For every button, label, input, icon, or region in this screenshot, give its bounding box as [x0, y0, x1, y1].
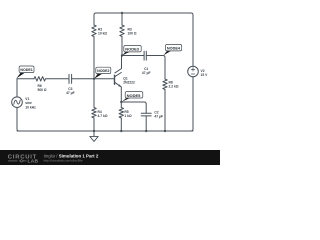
- svg-text:NODE3: NODE3: [125, 47, 140, 52]
- svg-text:10 kΩ: 10 kΩ: [98, 32, 107, 36]
- svg-text:10 kHz: 10 kHz: [25, 105, 36, 109]
- svg-text:http://circuitlab.com/c6vx38e: http://circuitlab.com/c6vx38e: [44, 158, 83, 162]
- svg-text:NODE4: NODE4: [167, 47, 181, 51]
- svg-text:15 V: 15 V: [201, 73, 209, 77]
- svg-text:47 μF: 47 μF: [66, 91, 75, 95]
- svg-text:1 kΩ: 1 kΩ: [124, 114, 132, 118]
- svg-text:NODE1: NODE1: [20, 68, 32, 72]
- svg-text:47 μF: 47 μF: [154, 115, 163, 119]
- svg-text:NODE5: NODE5: [127, 93, 142, 98]
- svg-text:2.2 kΩ: 2.2 kΩ: [169, 85, 179, 89]
- svg-text:LAB: LAB: [28, 158, 39, 164]
- svg-text:2N2222: 2N2222: [123, 80, 135, 84]
- svg-text:NODE2: NODE2: [97, 69, 109, 73]
- svg-text:500 Ω: 500 Ω: [38, 88, 47, 92]
- svg-text:4.7 kΩ: 4.7 kΩ: [98, 114, 108, 118]
- svg-text:100 Ω: 100 Ω: [128, 32, 137, 36]
- svg-text:47 μF: 47 μF: [142, 71, 151, 75]
